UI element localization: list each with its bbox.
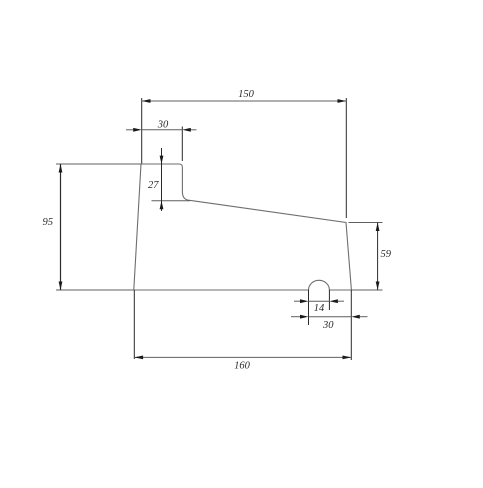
svg-text:59: 59	[381, 249, 392, 260]
dimension 59 arrow bottom	[376, 282, 380, 291]
extension line 59 top	[349, 222, 383, 224]
dimension 30 top arrow right	[182, 128, 191, 132]
dimension 30 top right tail	[190, 129, 196, 131]
extension line notch right leg	[328, 290, 330, 310]
dimension 30 top line	[142, 129, 183, 131]
dimension 14 arrow right	[329, 299, 338, 303]
dimension 27 arrow bottom	[160, 201, 164, 209]
svg-text:150: 150	[238, 89, 255, 100]
dimension 150 line	[142, 100, 347, 102]
dimension 95 arrow top	[59, 164, 63, 173]
dimension 150 arrow right	[338, 99, 347, 103]
svg-text:95: 95	[43, 217, 54, 228]
svg-text:30: 30	[157, 119, 169, 130]
svg-text:27: 27	[148, 180, 159, 191]
dimension 95 line	[60, 164, 62, 290]
dimension 59 arrow top	[376, 223, 380, 232]
extension line 95 bottom / profile bottom left ext	[56, 289, 134, 291]
dimension 14 line	[309, 300, 330, 302]
extension line notch left leg	[308, 290, 310, 325]
extension line right vertical (150 right)	[345, 98, 347, 218]
dimension 30 bottom right tail	[360, 316, 368, 318]
extension line step bottom (27)	[152, 200, 191, 202]
extension line 95 top	[56, 163, 141, 165]
extension line bottom right vertical (30/160 right)	[350, 290, 352, 360]
dimension 30 bottom arrow right	[351, 315, 360, 319]
profile outline	[134, 164, 352, 290]
dimension 150 arrow left	[142, 99, 151, 103]
svg-text:14: 14	[314, 303, 325, 314]
extension line left vertical (150/30 left)	[141, 98, 143, 164]
svg-text:160: 160	[234, 361, 251, 372]
dimension 30 bottom arrow left	[300, 315, 309, 319]
dimension 27 line	[161, 148, 163, 211]
dimension 59 line	[377, 223, 379, 291]
dimension 14 left tail	[294, 300, 300, 302]
extension line bottom left vertical (160 left)	[133, 290, 135, 359]
extension line 59 bottom (bottom line extended right)	[351, 289, 382, 291]
dimension 160 arrow right	[343, 356, 352, 360]
dimension 14 right tail	[338, 300, 344, 302]
dimension 30 bottom line	[309, 316, 352, 318]
svg-text:30: 30	[322, 320, 334, 331]
dimension 30 top arrow left	[133, 128, 142, 132]
dimension 95 arrow bottom	[59, 282, 63, 291]
dimension 30 top left tail	[126, 129, 134, 131]
dimension 27 arrow top	[160, 156, 164, 164]
dimension 30 bottom left tail	[291, 316, 300, 318]
dimension 160 line	[134, 356, 351, 358]
dimension 160 arrow left	[134, 356, 143, 360]
dimension 14 arrow left	[300, 299, 309, 303]
extension line right vertical (30 top right)	[181, 127, 183, 162]
